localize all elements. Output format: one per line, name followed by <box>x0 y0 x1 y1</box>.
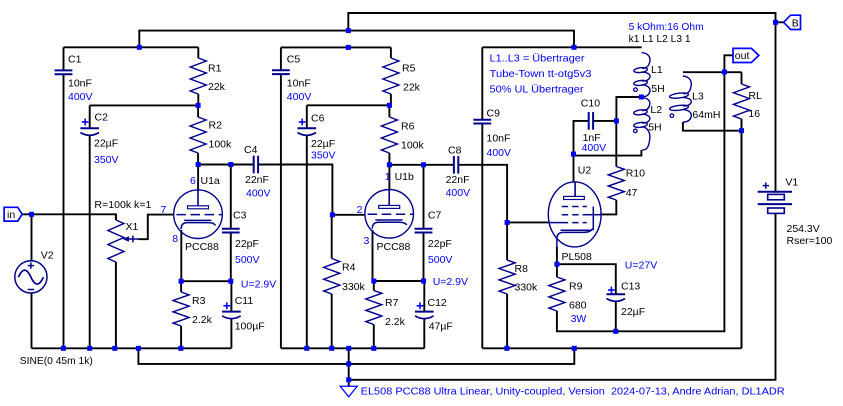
svg-text:V2: V2 <box>41 250 54 262</box>
wire U1a anode pin <box>197 165 199 191</box>
label L3 <box>692 91 704 103</box>
capacitor C9 <box>473 47 491 348</box>
wire B+ second rail y30 <box>139 31 574 48</box>
resistor R2 <box>190 105 206 164</box>
svg-text:U=27V: U=27V <box>625 260 657 272</box>
label C6 value <box>311 138 335 150</box>
svg-text:64mH: 64mH <box>692 109 720 121</box>
svg-text:22nF: 22nF <box>245 174 269 186</box>
svg-text:C10: C10 <box>581 98 600 110</box>
svg-text:22µF: 22µF <box>311 138 335 150</box>
label R4 value <box>342 281 366 293</box>
svg-text:RL: RL <box>748 90 762 102</box>
label C8 voltage <box>446 187 471 199</box>
svg-text:k1 L1 L2 L3 1: k1 L1 L2 L3 1 <box>629 33 691 45</box>
label V1 <box>785 176 798 188</box>
svg-text:100µF: 100µF <box>235 321 265 333</box>
svg-text:Tube-Town tt-otg5v3: Tube-Town tt-otg5v3 <box>490 68 592 80</box>
label V2 value <box>20 355 93 367</box>
wire L2 bottom to U2 anode node <box>574 150 642 156</box>
capacitor C2 <box>80 105 99 348</box>
triode U1b <box>365 190 414 239</box>
wire U1b anode pin <box>388 165 390 190</box>
svg-text:in: in <box>7 209 15 221</box>
wire U1b anode node to C8 <box>389 164 453 166</box>
svg-text:C2: C2 <box>95 111 109 123</box>
label R9 value <box>569 300 587 312</box>
capacitor C12 <box>415 281 434 348</box>
svg-text:R7: R7 <box>385 297 399 309</box>
label R5 value <box>403 82 421 94</box>
svg-text:400V: 400V <box>446 187 471 199</box>
wire ground column <box>348 348 350 380</box>
svg-text:22µF: 22µF <box>94 138 118 150</box>
wire U1a anode node to C4 <box>198 164 253 166</box>
label C12 value <box>429 321 453 333</box>
svg-text:V1: V1 <box>785 176 798 188</box>
label V1 value <box>787 223 820 235</box>
inductor L3 <box>669 76 691 122</box>
svg-text:C8: C8 <box>448 145 462 157</box>
wire X1 wiper to U1a grid <box>138 215 173 240</box>
svg-text:B: B <box>792 17 799 29</box>
svg-text:10nF: 10nF <box>68 77 92 89</box>
wire U1a cathode pin <box>180 230 182 281</box>
wire B+ left rail y47 (C1 to R1) <box>64 46 199 48</box>
svg-text:U=2.9V: U=2.9V <box>433 276 468 288</box>
svg-text:U1a: U1a <box>201 175 220 187</box>
wire in port to X1 top <box>22 214 116 220</box>
label C11 value <box>235 321 265 333</box>
label L2 <box>650 104 662 116</box>
label C4 value <box>245 174 269 186</box>
label V2 <box>41 250 54 262</box>
label U1b <box>395 171 414 183</box>
svg-text:400V: 400V <box>68 91 93 103</box>
resistor R7 <box>366 281 382 348</box>
svg-text:6: 6 <box>190 175 196 187</box>
wire C2 top to R1R2 node <box>90 104 198 106</box>
wire B+ top rail from node A to V1 plus <box>348 13 775 192</box>
label X1 <box>126 221 139 233</box>
wire U2 cathode node to C13 <box>557 264 616 292</box>
svg-text:out: out <box>735 50 750 62</box>
label C5 voltage <box>287 91 312 103</box>
svg-text:5H: 5H <box>651 83 664 95</box>
wire C10 left corner to U2 anode node <box>574 121 589 154</box>
svg-text:47µF: 47µF <box>429 321 453 333</box>
label R2 value <box>209 138 233 150</box>
wire V2 top <box>31 214 33 261</box>
svg-text:C7: C7 <box>428 210 442 222</box>
label C7 <box>428 210 442 222</box>
label RL value <box>748 108 760 120</box>
svg-text:U=2.9V: U=2.9V <box>241 278 276 290</box>
wire U1b cathode rail <box>374 280 425 282</box>
inductor L2 <box>633 97 649 150</box>
label V1 Rser <box>787 235 833 247</box>
label C5 <box>287 54 301 66</box>
label C3 voltage <box>235 254 260 266</box>
label R2 <box>209 119 223 131</box>
svg-text:330k: 330k <box>515 282 539 294</box>
wire U2 g2 to R10 bottom <box>600 200 616 214</box>
label U1b pin 3 <box>364 235 370 247</box>
label R9 <box>569 281 583 293</box>
svg-text:R5: R5 <box>402 63 416 75</box>
svg-text:22µF: 22µF <box>621 306 645 318</box>
port B <box>784 15 801 29</box>
svg-text:U1b: U1b <box>395 171 414 183</box>
wire R9 bottom rail to C13 bottom <box>557 311 616 331</box>
wire RL bottom to ground rail <box>741 119 743 348</box>
svg-text:L1..L3 = Übertrager: L1..L3 = Übertrager <box>490 53 586 65</box>
label R5 <box>402 63 416 75</box>
port out <box>733 48 759 62</box>
resistor R10 <box>608 121 624 200</box>
svg-text:PCC88: PCC88 <box>185 241 219 253</box>
svg-text:16: 16 <box>748 108 760 120</box>
label C2 value <box>94 138 118 150</box>
label U1a pin 8 <box>172 233 178 245</box>
svg-text:EL508 PCC88 Ultra Linear, Unit: EL508 PCC88 Ultra Linear, Unity-coupled,… <box>361 386 785 398</box>
svg-text:C1: C1 <box>68 53 82 65</box>
svg-text:8: 8 <box>172 233 178 245</box>
svg-text:7: 7 <box>161 204 167 216</box>
svg-text:400V: 400V <box>582 142 607 154</box>
label coupling statement <box>629 33 691 45</box>
wire stub to port B <box>776 21 784 23</box>
svg-text:U2: U2 <box>578 165 592 177</box>
svg-text:47: 47 <box>626 187 638 199</box>
svg-text:350V: 350V <box>311 150 336 162</box>
capacitor C11 <box>222 281 241 348</box>
svg-text:R10: R10 <box>626 168 645 180</box>
label U1b pin 2 <box>357 204 363 216</box>
label L2 value <box>648 122 661 134</box>
svg-text:R1: R1 <box>208 62 222 74</box>
label R8 value <box>515 282 539 294</box>
label R3 value <box>192 314 213 326</box>
svg-text:22nF: 22nF <box>446 174 470 186</box>
svg-text:254.3V: 254.3V <box>787 223 820 235</box>
svg-text:R9: R9 <box>569 281 583 293</box>
svg-text:L1: L1 <box>651 64 663 76</box>
comment text Uebertrager <box>490 53 592 96</box>
wire ground bypass <box>138 348 574 364</box>
label L1 <box>651 64 663 76</box>
svg-text:R=100k k=1: R=100k k=1 <box>94 199 151 211</box>
capacitor C8 <box>453 156 459 174</box>
label C2 <box>95 111 109 123</box>
wire B+ right rail y47 (C9 to L1) <box>482 46 641 48</box>
label C7 voltage <box>428 254 453 266</box>
capacitor C13 <box>607 287 626 332</box>
wire L3 bottom <box>683 122 742 131</box>
label U1a pin 7 <box>161 204 167 216</box>
svg-text:C5: C5 <box>287 54 301 66</box>
label C9 value <box>487 133 511 145</box>
label R6 value <box>401 140 425 152</box>
svg-text:C3: C3 <box>233 210 247 222</box>
label C13 value <box>621 306 645 318</box>
label U1a type <box>185 241 219 253</box>
svg-text:10nF: 10nF <box>287 78 311 90</box>
triode U1a <box>174 190 223 239</box>
label R9 power <box>571 313 587 325</box>
wire UL tap from L1L2 node <box>616 97 641 121</box>
label U1a pin 6 <box>190 175 196 187</box>
svg-text:SINE(0 45m 1k): SINE(0 45m 1k) <box>20 355 93 367</box>
label C13 <box>621 281 640 293</box>
label U2 type <box>562 251 593 263</box>
label R6 <box>401 121 415 133</box>
wire C13 bottom to out node riser <box>616 72 725 331</box>
wire C8 to U2 grid <box>459 165 548 223</box>
label R1 value <box>208 81 226 93</box>
label C1 <box>68 53 82 65</box>
svg-text:Rser=100: Rser=100 <box>787 235 833 247</box>
label U1b type <box>377 241 411 253</box>
label C11 <box>235 295 254 307</box>
label C6 <box>311 112 325 124</box>
label R8 <box>515 263 529 275</box>
label X1 value <box>94 199 151 211</box>
wire U1a cathode rail <box>181 280 231 282</box>
label R4 <box>342 262 356 274</box>
svg-text:2: 2 <box>357 204 363 216</box>
svg-text:2.2k: 2.2k <box>385 316 406 328</box>
svg-text:330k: 330k <box>342 281 366 293</box>
svg-text:500V: 500V <box>428 254 453 266</box>
svg-text:3: 3 <box>364 235 370 247</box>
capacitor C4 <box>253 156 259 174</box>
wire V2 bottom to ground rail <box>31 293 33 349</box>
svg-text:C11: C11 <box>235 295 254 307</box>
resistor R9 <box>549 264 565 311</box>
wire ground rail left segment <box>32 347 232 349</box>
label L1 value <box>651 83 664 95</box>
wire ground rail right segment <box>482 347 741 349</box>
svg-text:C4: C4 <box>244 144 258 156</box>
wire C4 to U1b grid <box>259 165 365 215</box>
label U2 <box>578 165 592 177</box>
label transformer ratio <box>629 21 704 33</box>
label C4 voltage <box>246 188 271 200</box>
voltage source V2 <box>15 261 47 293</box>
resistor R4 <box>324 215 340 348</box>
resistor RL <box>734 72 750 348</box>
svg-text:500V: 500V <box>235 254 260 266</box>
capacitor C7 <box>415 165 433 281</box>
label C9 <box>487 108 501 120</box>
label R7 <box>385 297 399 309</box>
label C12 <box>428 297 447 309</box>
label C1 voltage <box>68 91 93 103</box>
svg-text:C13: C13 <box>621 281 640 293</box>
label R10 <box>626 168 645 180</box>
resistor R8 <box>499 222 515 348</box>
svg-text:100k: 100k <box>401 140 425 152</box>
label U1a cathode voltage <box>241 278 276 290</box>
svg-text:22k: 22k <box>208 81 226 93</box>
svg-text:PL508: PL508 <box>562 251 593 263</box>
capacitor C6 <box>298 105 317 348</box>
label U1b pin 1 <box>385 171 391 183</box>
label C10 voltage <box>582 142 607 154</box>
svg-text:R4: R4 <box>342 262 356 274</box>
wire C6 top to R5R6 node <box>307 104 390 106</box>
label U1b cathode voltage <box>433 276 468 288</box>
label R3 <box>192 295 206 307</box>
svg-text:C6: C6 <box>311 112 325 124</box>
svg-text:L3: L3 <box>692 91 704 103</box>
svg-text:R6: R6 <box>401 121 415 133</box>
svg-text:R2: R2 <box>209 119 223 131</box>
port in <box>4 207 22 221</box>
label C3 <box>233 210 247 222</box>
voltage source V1 <box>758 182 792 213</box>
resistor R5 <box>383 47 399 105</box>
label U2 cathode voltage <box>625 260 657 272</box>
inductor L1 <box>634 53 650 97</box>
label C3 value <box>235 238 259 250</box>
label C4 <box>244 144 258 156</box>
label R1 <box>208 62 222 74</box>
svg-text:680: 680 <box>569 300 587 312</box>
label C9 voltage <box>487 147 512 159</box>
capacitor C3 <box>222 165 240 282</box>
capacitor C1 <box>55 47 73 348</box>
svg-text:22pF: 22pF <box>235 238 259 250</box>
resistor R6 <box>381 105 397 165</box>
wire U1b cathode pin <box>372 230 374 281</box>
label C2 voltage <box>94 154 119 166</box>
label C1 value <box>68 77 92 89</box>
ground <box>340 380 357 397</box>
svg-text:R8: R8 <box>515 263 529 275</box>
wire C10 right to tap corner <box>594 120 617 122</box>
svg-text:10nF: 10nF <box>487 133 511 145</box>
label R10 value <box>626 187 638 199</box>
capacitor C5 <box>272 47 290 348</box>
label U1a <box>201 175 220 187</box>
svg-text:5H: 5H <box>648 122 661 134</box>
title text <box>361 386 785 398</box>
svg-text:R3: R3 <box>192 295 206 307</box>
label C7 value <box>428 238 452 250</box>
label C10 value <box>583 132 601 144</box>
svg-text:PCC88: PCC88 <box>377 241 411 253</box>
label C8 value <box>446 174 470 186</box>
svg-text:L2: L2 <box>650 104 662 116</box>
svg-text:3W: 3W <box>571 313 587 325</box>
svg-text:2.2k: 2.2k <box>192 314 213 326</box>
svg-text:50% UL Übertrager: 50% UL Übertrager <box>490 83 585 95</box>
svg-text:C9: C9 <box>487 108 501 120</box>
svg-text:C12: C12 <box>428 297 447 309</box>
potentiometer X1 <box>108 215 139 349</box>
label C5 value <box>287 78 311 90</box>
wire B+ mid rail y47 (C5 to R5) <box>281 46 391 48</box>
wire V1 minus return <box>349 213 776 379</box>
wire U2 anode pin <box>573 154 575 182</box>
resistor R3 <box>173 281 189 348</box>
label C10 <box>581 98 600 110</box>
svg-text:X1: X1 <box>126 221 139 233</box>
capacitor C10 <box>588 112 594 130</box>
wire out node to out port <box>724 55 733 72</box>
svg-text:400V: 400V <box>487 147 512 159</box>
label C6 voltage <box>311 150 336 162</box>
svg-text:5 kOhm:16 Ohm: 5 kOhm:16 Ohm <box>629 21 704 33</box>
label C8 <box>448 145 462 157</box>
svg-text:22k: 22k <box>403 82 421 94</box>
pentode U2 <box>548 182 601 247</box>
wire ground rail mid segment <box>281 347 424 349</box>
svg-text:22pF: 22pF <box>428 238 452 250</box>
resistor R1 <box>190 47 206 105</box>
svg-text:100k: 100k <box>209 138 233 150</box>
svg-text:400V: 400V <box>246 188 271 200</box>
wire out node rail L3 to RL <box>683 71 742 73</box>
label R7 value <box>385 316 406 328</box>
svg-text:350V: 350V <box>94 154 119 166</box>
wire U2 cathode pin <box>556 247 558 264</box>
svg-text:1: 1 <box>385 171 391 183</box>
svg-text:400V: 400V <box>287 91 312 103</box>
label L3 value <box>692 109 720 121</box>
label RL <box>748 90 762 102</box>
